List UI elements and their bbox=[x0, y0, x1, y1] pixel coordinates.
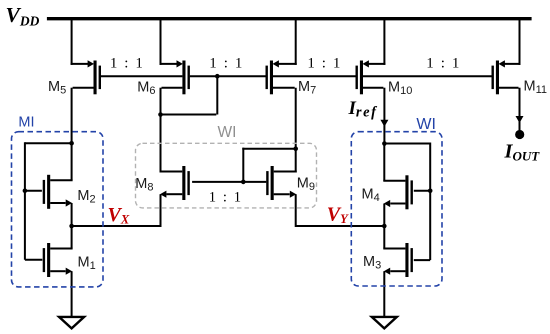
svg-text:1 : 1: 1 : 1 bbox=[110, 55, 145, 71]
svg-text:1 : 1: 1 : 1 bbox=[426, 55, 461, 71]
svg-text:1 : 1: 1 : 1 bbox=[307, 56, 342, 72]
svg-text:WI: WI bbox=[218, 124, 237, 141]
svg-text:1 : 1: 1 : 1 bbox=[209, 56, 244, 72]
svg-text:MI: MI bbox=[18, 115, 34, 131]
svg-text:WI: WI bbox=[416, 116, 436, 133]
svg-text:1 : 1: 1 : 1 bbox=[209, 190, 243, 206]
